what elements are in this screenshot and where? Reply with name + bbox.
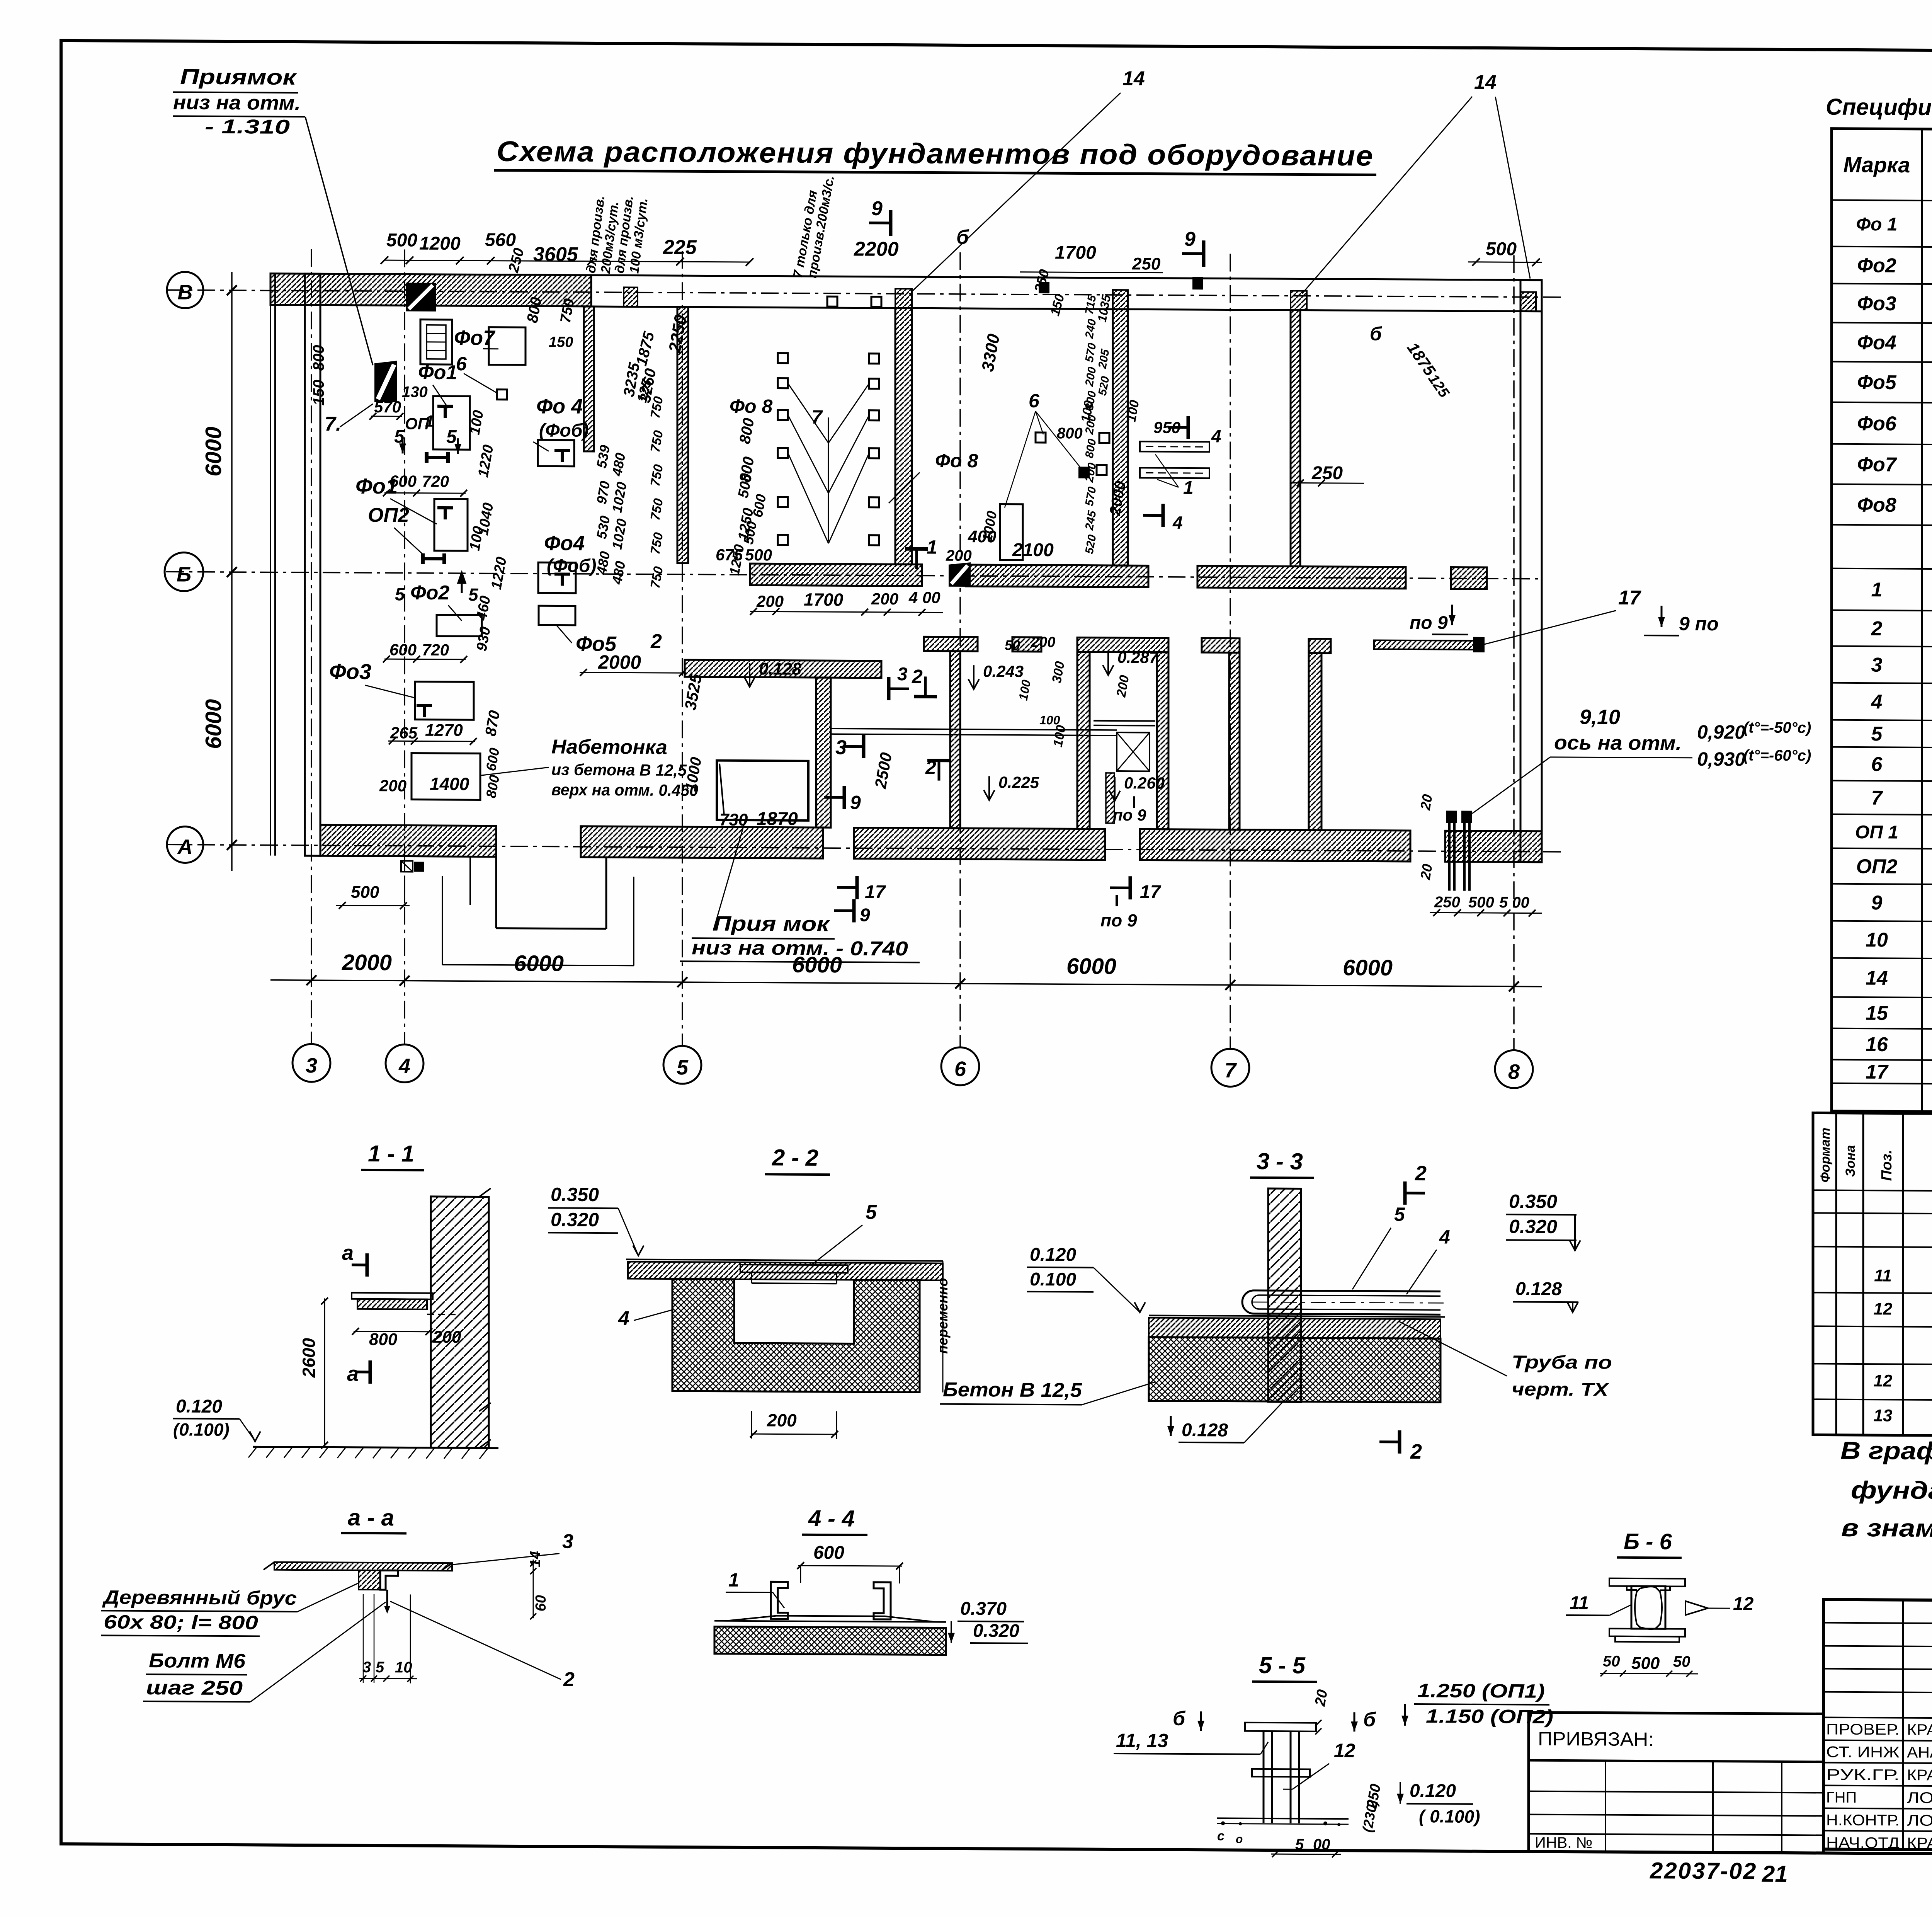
svg-text:фундаментов для производительн: фундаментов для производительности 200 xyxy=(1851,1476,1932,1507)
svg-text:200: 200 xyxy=(871,590,898,608)
bottom wall on axis A segment 5 xyxy=(1445,831,1542,862)
svg-text:4: 4 xyxy=(1172,512,1183,533)
svg-text:КРАСАВИН: КРАСАВИН xyxy=(1907,1835,1932,1852)
bottom wall on axis A segment 1 xyxy=(320,825,496,856)
svg-text:3: 3 xyxy=(306,1054,317,1077)
anchor square item 6 xyxy=(497,390,507,400)
svg-text:250: 250 xyxy=(1311,463,1343,484)
svg-text:16: 16 xyxy=(1866,1033,1888,1056)
svg-text:800: 800 xyxy=(310,345,327,371)
svg-text:Фо 8: Фо 8 xyxy=(730,395,772,417)
svg-text:ПРОВЕР.: ПРОВЕР. xyxy=(1826,1721,1900,1738)
title block left signature columns xyxy=(1902,1600,1904,1850)
svg-text:0.320: 0.320 xyxy=(973,1621,1019,1641)
svg-text:10: 10 xyxy=(395,1659,412,1676)
section 4-4 channels xyxy=(771,1582,788,1619)
middle wall segment 1 xyxy=(924,637,978,651)
axis line 8 (vertical) xyxy=(1513,255,1515,1050)
svg-text:низ на отм. - 0.740: низ на отм. - 0.740 xyxy=(692,936,908,960)
svg-text:4: 4 xyxy=(1211,426,1221,446)
svg-text:6: 6 xyxy=(954,1057,966,1081)
svg-text:ЛОУЦКЕР: ЛОУЦКЕР xyxy=(1907,1789,1932,1807)
svg-text:12: 12 xyxy=(1334,1740,1355,1761)
svg-text:Б: Б xyxy=(177,563,191,586)
axis bubble 3 xyxy=(293,1044,330,1082)
svg-text:6000: 6000 xyxy=(201,427,226,477)
svg-text:шаг 250: шаг 250 xyxy=(146,1677,243,1699)
rails item 1 xyxy=(1140,441,1209,452)
svg-text:11: 11 xyxy=(1570,1593,1589,1613)
svg-text:б: б xyxy=(1370,323,1383,344)
svg-text:12: 12 xyxy=(1874,1299,1893,1318)
svg-text:50: 50 xyxy=(1673,1653,1690,1670)
svg-text:В графе „ количество" в числит: В графе „ количество" в числителе дано к… xyxy=(1840,1437,1932,1468)
bottom wall on axis A segment 3 xyxy=(854,827,1105,860)
svg-text:570: 570 xyxy=(374,398,401,416)
svg-text:200: 200 xyxy=(1031,634,1055,650)
lower partition wall 1 xyxy=(816,678,831,827)
axis line B (horizontal) xyxy=(166,572,1542,579)
lower partition wall 4 xyxy=(1309,653,1321,830)
svg-text:4 - 4: 4 - 4 xyxy=(808,1505,855,1532)
black marker item 7 xyxy=(374,361,397,402)
svg-text:225: 225 xyxy=(663,236,697,259)
concrete pad 1400 xyxy=(412,753,480,800)
section 1-1 bracket shelf xyxy=(352,1293,433,1299)
upper partition wall 1 xyxy=(584,306,594,451)
svg-text:9: 9 xyxy=(860,905,870,926)
svg-text:6000: 6000 xyxy=(1343,955,1393,981)
svg-text:2 - 2: 2 - 2 xyxy=(772,1144,818,1171)
axis bubble 8 xyxy=(1495,1050,1533,1088)
svg-text:17: 17 xyxy=(1866,1061,1889,1083)
svg-text:2000: 2000 xyxy=(342,950,392,976)
axis line 4 (vertical) xyxy=(404,249,405,1044)
svg-text:22037-02: 22037-02 xyxy=(1650,1857,1757,1884)
svg-text:Фо2: Фо2 xyxy=(1857,254,1896,277)
svg-text:Фо8: Фо8 xyxy=(1857,494,1896,516)
svg-text:Н.КОНТР.: Н.КОНТР. xyxy=(1826,1811,1900,1829)
svg-text:600: 600 xyxy=(813,1542,844,1563)
svg-text:с: с xyxy=(1217,1828,1225,1843)
svg-text:верх на отм. 0.450: верх на отм. 0.450 xyxy=(551,780,698,799)
anchor bolt field (item 7 chevrons) xyxy=(778,353,788,363)
right wall on axis 8 xyxy=(1520,280,1542,862)
svg-text:800: 800 xyxy=(369,1330,398,1349)
svg-text:11, 13: 11, 13 xyxy=(1116,1730,1168,1752)
svg-text:ОП2: ОП2 xyxy=(368,504,409,527)
svg-text:2: 2 xyxy=(1871,618,1883,640)
specification table grid xyxy=(1832,129,1932,1115)
svg-text:3: 3 xyxy=(1871,654,1883,676)
svg-text:720: 720 xyxy=(422,472,449,490)
svg-text:Бетон В 12,5: Бетон В 12,5 xyxy=(943,1379,1082,1402)
wall on axis B segment 1 xyxy=(750,564,922,586)
black inserts on top wall xyxy=(406,283,436,311)
top wall on axis V hatched part xyxy=(270,274,591,306)
upper partition wall 2 xyxy=(895,308,912,564)
middle wall segment 4 xyxy=(1202,638,1240,653)
svg-text:9,10: 9,10 xyxy=(1580,705,1620,729)
svg-text:о: о xyxy=(1236,1833,1243,1846)
svg-text:0.120: 0.120 xyxy=(176,1396,222,1417)
svg-text:9: 9 xyxy=(871,197,883,220)
svg-text:5: 5 xyxy=(1394,1204,1405,1225)
tambour room rectangle 730x1870 xyxy=(717,761,808,821)
opora OP2 symbol xyxy=(421,553,425,564)
svg-text:б: б xyxy=(1363,1708,1376,1731)
svg-text:0.128: 0.128 xyxy=(759,659,802,679)
svg-text:0.320: 0.320 xyxy=(551,1209,599,1231)
svg-text:500: 500 xyxy=(1468,894,1494,911)
svg-text:0.120: 0.120 xyxy=(1410,1781,1456,1801)
pit room left wall xyxy=(1077,652,1090,829)
svg-text:10: 10 xyxy=(1866,929,1888,951)
svg-text:1870: 1870 xyxy=(757,809,798,829)
svg-text:14: 14 xyxy=(1866,967,1888,989)
section 1-1 dims xyxy=(324,1298,325,1447)
svg-text:Набетонка: Набетонка xyxy=(551,735,667,759)
svg-text:5: 5 xyxy=(376,1659,384,1676)
svg-text:250: 250 xyxy=(1434,894,1460,911)
svg-text:17: 17 xyxy=(1618,587,1641,609)
section a-a board xyxy=(274,1562,452,1571)
svg-text:б: б xyxy=(956,226,969,249)
bottom dimension chain 2000/6000 xyxy=(270,980,1542,987)
svg-text:А: А xyxy=(177,835,193,858)
svg-text:6: 6 xyxy=(1029,390,1040,412)
svg-text:ось на отм.: ось на отм. xyxy=(1554,732,1682,755)
svg-text:130: 130 xyxy=(402,383,428,400)
svg-text:20: 20 xyxy=(1312,1688,1331,1708)
svg-text:1400: 1400 xyxy=(430,774,469,794)
lower partition wall 3 xyxy=(1229,653,1240,830)
svg-text:1 - 1: 1 - 1 xyxy=(368,1141,414,1167)
svg-text:5 - 5: 5 - 5 xyxy=(1259,1652,1306,1679)
svg-text:Приямок: Приямок xyxy=(180,64,297,89)
svg-text:Фо4: Фо4 xyxy=(544,531,585,555)
svg-text:Фо 4: Фо 4 xyxy=(536,395,583,418)
pit room right wall xyxy=(1157,652,1168,829)
svg-text:7: 7 xyxy=(1871,787,1883,809)
svg-text:2000: 2000 xyxy=(598,651,641,673)
svg-text:2200: 2200 xyxy=(854,238,899,260)
bottom wall on axis A segment 2 xyxy=(581,826,823,858)
svg-text:200: 200 xyxy=(379,776,406,795)
svg-text:в знаменателе - для производит: в знаменателе - для производительности 1… xyxy=(1841,1514,1932,1545)
svg-text:- 1.310: - 1.310 xyxy=(205,116,290,138)
svg-text:0,920: 0,920 xyxy=(1697,721,1745,743)
svg-text:4: 4 xyxy=(1871,691,1883,713)
svg-text:a: a xyxy=(342,1241,354,1265)
svg-text:2: 2 xyxy=(563,1668,575,1691)
black marker near axis 5 lower xyxy=(949,562,971,587)
svg-text:7: 7 xyxy=(1225,1059,1237,1082)
wall anchor plates on top wall xyxy=(624,287,638,306)
section 3-3 floor slab xyxy=(1149,1315,1445,1317)
pit room inner structure xyxy=(1094,720,1155,722)
svg-text:14: 14 xyxy=(1474,71,1497,94)
level mark 0.128 tambour xyxy=(744,677,755,687)
svg-text:12: 12 xyxy=(1874,1371,1893,1390)
dim 600 720 xyxy=(384,493,466,493)
left vertical dimension chain 6000/6000 xyxy=(231,272,233,871)
axis bubble 6 xyxy=(941,1047,979,1086)
svg-text:1.250 (ОП1): 1.250 (ОП1) xyxy=(1417,1680,1545,1702)
svg-text:500: 500 xyxy=(386,230,417,250)
svg-text:4: 4 xyxy=(1439,1226,1450,1248)
svg-text:5: 5 xyxy=(677,1056,689,1079)
section 2-2 concrete mass xyxy=(672,1279,920,1392)
tambour room top wall xyxy=(685,660,881,678)
svg-text:9: 9 xyxy=(1184,228,1196,250)
upper partition wall 3 xyxy=(1113,309,1128,565)
svg-text:0.128: 0.128 xyxy=(1182,1420,1228,1441)
section 5-5 ground xyxy=(1217,1818,1349,1819)
svg-text:Спецификация к схеме расположе: Спецификация к схеме расположения фундам… xyxy=(1826,94,1932,124)
middle wall segment 5 xyxy=(1309,639,1331,653)
svg-text:0.243: 0.243 xyxy=(983,662,1024,681)
svg-text:500: 500 xyxy=(745,546,772,564)
svg-text:5: 5 xyxy=(1871,723,1883,745)
section 4-4 base xyxy=(714,1621,946,1622)
middle wall segment 3 xyxy=(1077,637,1168,652)
svg-text:250: 250 xyxy=(1132,254,1161,273)
axis line 3 (vertical) xyxy=(311,249,312,1044)
svg-text:1.150 (ОП2): 1.150 (ОП2) xyxy=(1426,1705,1553,1728)
svg-text:4 00: 4 00 xyxy=(908,588,940,606)
svg-text:черт. ТХ: черт. ТХ xyxy=(1512,1379,1609,1400)
svg-text:СТ. ИНЖ: СТ. ИНЖ xyxy=(1826,1743,1900,1761)
svg-text:50: 50 xyxy=(1005,637,1020,653)
axis bubble V xyxy=(167,272,203,308)
svg-text:15: 15 xyxy=(1866,1002,1888,1025)
svg-text:12: 12 xyxy=(1733,1594,1754,1614)
svg-text:0.100: 0.100 xyxy=(1030,1269,1076,1290)
svg-text:0.128: 0.128 xyxy=(1515,1279,1562,1299)
svg-text:500: 500 xyxy=(351,883,379,902)
axis line 5 (vertical) xyxy=(682,251,683,1046)
svg-text:6000: 6000 xyxy=(201,699,226,749)
foundation Fo5 xyxy=(539,606,575,625)
section 3-3 column xyxy=(1268,1188,1301,1402)
svg-text:по 9: по 9 xyxy=(1410,613,1448,633)
svg-text:4: 4 xyxy=(618,1307,629,1330)
upper partition wall on axis 5 xyxy=(677,307,688,563)
bottom wall on axis A segment 4 xyxy=(1140,829,1410,861)
axis bubble 5 xyxy=(663,1046,701,1084)
svg-text:Фо2: Фо2 xyxy=(410,582,449,604)
svg-text:2: 2 xyxy=(650,630,662,653)
svg-text:6000: 6000 xyxy=(514,951,564,976)
svg-text:0,930: 0,930 xyxy=(1697,748,1745,770)
svg-text:(0.100): (0.100) xyxy=(173,1419,230,1440)
svg-text:по 9: по 9 xyxy=(1100,910,1137,930)
svg-text:3: 3 xyxy=(562,1531,573,1553)
svg-text:3605: 3605 xyxy=(533,243,578,266)
axis bubble B xyxy=(165,552,203,591)
svg-text:Фо1: Фо1 xyxy=(418,361,457,384)
svg-text:(t°=-60°с): (t°=-60°с) xyxy=(1743,747,1811,764)
svg-text:600: 600 xyxy=(389,640,417,659)
section 6-6 beam assembly xyxy=(1609,1578,1685,1587)
left wall of building xyxy=(305,274,320,856)
svg-text:ЛОУЦКЕР: ЛОУЦКЕР xyxy=(1907,1812,1932,1829)
svg-text:Труба по: Труба по xyxy=(1512,1352,1612,1373)
svg-text:60х 80; l= 800: 60х 80; l= 800 xyxy=(104,1611,258,1633)
svg-text:ГНП: ГНП xyxy=(1826,1789,1857,1806)
svg-text:5: 5 xyxy=(866,1201,877,1224)
wall on axis B segment 4 xyxy=(1451,567,1487,589)
title block (stamp) outer xyxy=(1823,1600,1932,1854)
section a-a bracket xyxy=(359,1570,380,1590)
svg-text:1: 1 xyxy=(1183,478,1194,498)
svg-text:3 - 3: 3 - 3 xyxy=(1257,1148,1303,1175)
svg-text:ИНВ. №: ИНВ. № xyxy=(1535,1834,1592,1852)
svg-text:Деревянный брус: Деревянный брус xyxy=(102,1586,297,1609)
axis bubble 4 xyxy=(386,1044,423,1083)
svg-text:1700: 1700 xyxy=(804,589,844,610)
svg-text:9 по: 9 по xyxy=(1679,613,1719,635)
svg-text:из бетона В 12,5: из бетона В 12,5 xyxy=(551,760,687,779)
svg-text:150: 150 xyxy=(549,334,573,350)
svg-text:(Фоб): (Фоб) xyxy=(539,420,588,441)
svg-text:6: 6 xyxy=(456,353,467,375)
svg-text:a - a: a - a xyxy=(348,1505,394,1531)
svg-text:2: 2 xyxy=(1410,1440,1422,1463)
svg-text:КРАСНОВА: КРАСНОВА xyxy=(1907,1721,1932,1739)
svg-text:Фо3: Фо3 xyxy=(1857,292,1896,315)
axis bubble A xyxy=(167,826,203,863)
privyazan (binding) block xyxy=(1529,1713,1823,1853)
pipes through wall A (items 9,10) xyxy=(1448,817,1451,891)
section 3-3 pipe xyxy=(1242,1290,1440,1315)
svg-text:5 00: 5 00 xyxy=(1499,894,1529,911)
svg-text:Фо 1: Фо 1 xyxy=(1856,214,1898,235)
svg-text:1: 1 xyxy=(927,536,937,558)
svg-text:Фо 8: Фо 8 xyxy=(935,450,978,472)
svg-text:0.370: 0.370 xyxy=(960,1599,1007,1619)
svg-text:РУК.ГР.: РУК.ГР. xyxy=(1826,1766,1900,1784)
second table (OP1/OP2 parts list) grid xyxy=(1813,1113,1932,1439)
svg-text:6: 6 xyxy=(1871,753,1883,776)
svg-text:Фо5: Фо5 xyxy=(1857,371,1896,394)
svg-text:КРАСНОВА: КРАСНОВА xyxy=(1907,1767,1932,1784)
svg-text:7: 7 xyxy=(811,406,823,428)
svg-text:Фо1: Фо1 xyxy=(355,474,398,499)
lower pit outline below axis A xyxy=(442,876,443,965)
svg-text:9: 9 xyxy=(1871,892,1883,914)
wall on axis B segment 2 xyxy=(966,565,1148,587)
svg-text:17: 17 xyxy=(865,882,886,902)
svg-text:(Фоб): (Фоб) xyxy=(547,555,596,576)
svg-text:8: 8 xyxy=(1508,1060,1520,1083)
axis bubble 7 xyxy=(1211,1049,1249,1087)
svg-text:Фо6: Фо6 xyxy=(1857,412,1896,435)
svg-text:720: 720 xyxy=(422,641,449,659)
svg-text:150: 150 xyxy=(310,380,327,405)
svg-text:Болт М6: Болт М6 xyxy=(149,1650,246,1672)
section 1-1 ground line xyxy=(253,1447,498,1448)
svg-text:по 9: по 9 xyxy=(1113,806,1146,824)
trench lines between walls xyxy=(831,729,1117,730)
svg-text:1700: 1700 xyxy=(1055,242,1096,263)
svg-text:ОП 1: ОП 1 xyxy=(1855,822,1898,843)
svg-text:5: 5 xyxy=(1295,1836,1304,1853)
svg-text:0.287: 0.287 xyxy=(1117,648,1159,667)
svg-text:Поз.: Поз. xyxy=(1879,1150,1895,1181)
svg-text:ПРИВЯЗАН:: ПРИВЯЗАН: xyxy=(1538,1728,1654,1750)
svg-text:5: 5 xyxy=(395,584,405,604)
svg-text:200: 200 xyxy=(767,1410,797,1430)
svg-text:В: В xyxy=(178,281,193,304)
section 2-2 top surface xyxy=(626,1259,943,1261)
svg-text:50: 50 xyxy=(1603,1653,1620,1670)
svg-text:0.225: 0.225 xyxy=(998,773,1039,792)
wall on axis B segment 3 xyxy=(1197,566,1406,589)
middle wall segment 2 xyxy=(1012,637,1041,652)
svg-text:Прия мок: Прия мок xyxy=(713,912,830,936)
svg-text:Формат: Формат xyxy=(1818,1128,1833,1183)
svg-text:500: 500 xyxy=(1631,1654,1660,1673)
top dimension chain xyxy=(384,260,750,262)
svg-text:б: б xyxy=(1173,1708,1186,1730)
svg-text:Фо3: Фо3 xyxy=(329,659,371,684)
svg-text:2: 2 xyxy=(912,666,923,687)
upper partition wall 4 xyxy=(1291,310,1300,566)
svg-text:60: 60 xyxy=(533,1595,549,1611)
axis line 6 (vertical) xyxy=(959,252,961,1047)
section 5-5 posts xyxy=(1245,1723,1316,1731)
svg-text:1270: 1270 xyxy=(425,721,463,740)
svg-text:2100: 2100 xyxy=(1012,540,1054,561)
svg-text:Марка: Марка xyxy=(1844,152,1910,177)
section 1-1 wall xyxy=(431,1197,489,1448)
svg-text:Б - 6: Б - 6 xyxy=(1624,1529,1672,1554)
svg-text:200: 200 xyxy=(946,547,972,564)
svg-text:0.260: 0.260 xyxy=(1124,774,1165,792)
svg-text:20: 20 xyxy=(1417,793,1435,812)
svg-text:ОП2: ОП2 xyxy=(1856,855,1898,878)
svg-text:4: 4 xyxy=(398,1054,410,1078)
section 2-2 channel frame in trench xyxy=(740,1265,848,1273)
axis line 7 (vertical) xyxy=(1230,254,1231,1049)
svg-text:14: 14 xyxy=(1122,67,1145,90)
svg-text:0.120: 0.120 xyxy=(1030,1245,1076,1265)
svg-text:6000: 6000 xyxy=(1066,953,1116,979)
svg-text:20: 20 xyxy=(1417,863,1435,881)
svg-text:низ на отм.: низ на отм. xyxy=(173,91,301,114)
svg-text:13: 13 xyxy=(1874,1406,1893,1425)
svg-text:Фо7: Фо7 xyxy=(1857,453,1897,476)
svg-text:2600: 2600 xyxy=(299,1338,319,1378)
svg-text:00: 00 xyxy=(1313,1836,1330,1853)
svg-text:АНАНЬЕВА: АНАНЬЕВА xyxy=(1907,1744,1932,1761)
pit below axis A (pryamok) xyxy=(495,857,497,928)
svg-text:Фо4: Фо4 xyxy=(1857,331,1896,354)
svg-text:17: 17 xyxy=(1140,882,1162,902)
svg-text:1: 1 xyxy=(728,1569,739,1591)
svg-text:500: 500 xyxy=(1486,239,1517,259)
svg-text:14: 14 xyxy=(527,1551,544,1567)
svg-text:11: 11 xyxy=(1874,1266,1892,1285)
section 2-2 slab hatched xyxy=(628,1262,943,1280)
svg-text:a: a xyxy=(347,1362,359,1386)
svg-text:Схема расположения фундаментов: Схема расположения фундаментов под обору… xyxy=(497,135,1374,172)
svg-text:21: 21 xyxy=(1762,1861,1788,1887)
svg-text:100: 100 xyxy=(1039,713,1060,727)
opora symbols on wall A xyxy=(401,861,413,872)
